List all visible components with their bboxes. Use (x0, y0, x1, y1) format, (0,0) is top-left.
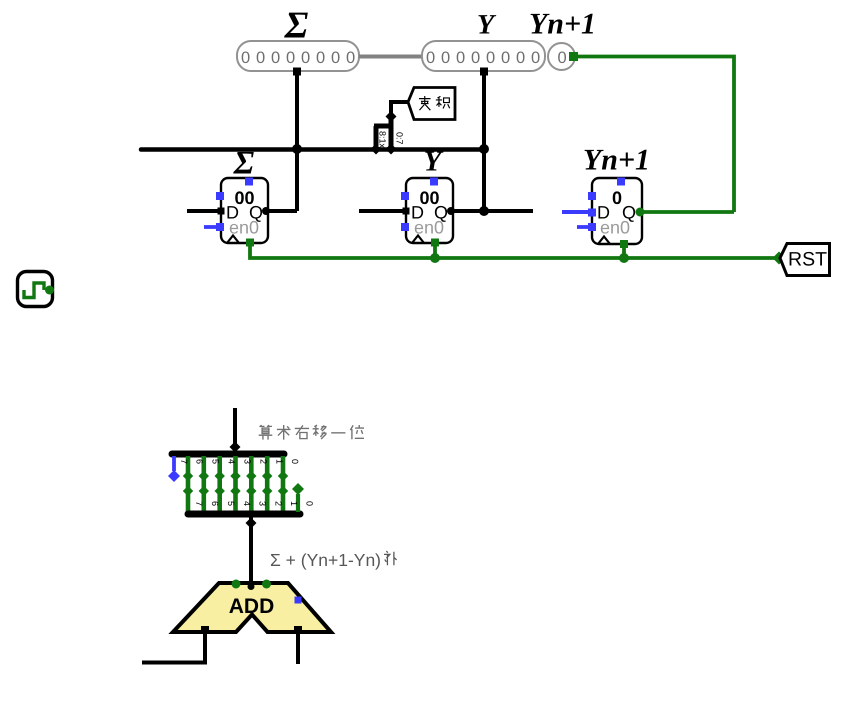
wire tunnel to splitter (391, 102, 408, 118)
pin adder input B green (262, 580, 271, 589)
pin adder bottom right (294, 626, 302, 634)
svg-text:4: 4 (242, 501, 252, 506)
wire green Yn+1 feedback top (577, 57, 734, 213)
pin adder input A green (232, 580, 241, 589)
splitter S1 body (371, 117, 397, 155)
splitter S2 top bar (172, 451, 284, 458)
svg-text:Σ: Σ (233, 146, 255, 182)
wire gray bus between probes (359, 55, 422, 59)
wire green from Yn+1 reset (622, 246, 626, 258)
wire green Q Yn+1 (640, 210, 734, 214)
splitter S3 lsb stub green (296, 494, 300, 512)
svg-text:0:7: 0:7 (395, 132, 405, 145)
register Y (401, 178, 455, 244)
svg-text:6: 6 (195, 459, 205, 464)
svg-text:00000000: 00000000 (426, 49, 540, 67)
text label BU glyph (384, 551, 397, 565)
svg-text:6: 6 (210, 501, 220, 506)
splitter S2 bit labels top (179, 459, 300, 464)
wire D input stub Yn+1 blue (562, 210, 592, 214)
node diamond shifter top (230, 442, 241, 453)
clock CLK body (18, 272, 53, 307)
wire Q SIGMA to vertical (266, 209, 297, 213)
pin probe SIGMA input (293, 68, 301, 76)
svg-text:1: 1 (289, 501, 299, 506)
shifter leg diamonds row2 (183, 486, 288, 496)
pin adder bottom left (201, 626, 209, 634)
node diamond RST wire end (773, 252, 786, 265)
svg-text:8:1x: 8:1x (378, 131, 388, 149)
svg-text:1: 1 (275, 459, 285, 464)
pin register SIGMA reset (246, 239, 254, 247)
pin adder carry blue (295, 597, 302, 604)
junction node bus x297 (292, 144, 302, 154)
wire stub into shifter top (233, 408, 237, 450)
svg-text:Y: Y (424, 146, 444, 178)
wire green from Y reset (433, 246, 437, 258)
svg-text:Y: Y (477, 10, 497, 41)
svg-text:7: 7 (194, 501, 204, 506)
pin clock output (45, 286, 54, 295)
svg-text:3: 3 (243, 459, 253, 464)
tunnel CHENGJI text (419, 96, 450, 110)
splitter S2 sign stub blue (172, 456, 176, 471)
tunnel RST body (780, 244, 830, 276)
wire en stub SIGMA blue (204, 225, 217, 229)
node diamond splitter main end (386, 111, 397, 122)
junction node Q wire x484 (479, 206, 489, 216)
wire vertical probe SIGMA to bus to reg Q (295, 75, 299, 211)
tunnel CHENGJI body (408, 88, 455, 120)
node adder top wire end (248, 583, 255, 590)
adder ADD body (173, 583, 331, 632)
svg-text:0: 0 (305, 501, 315, 506)
svg-text:5: 5 (226, 501, 236, 506)
pin register Yn+1 reset (620, 240, 628, 248)
node diamond blue sign (168, 470, 180, 482)
svg-text:0: 0 (290, 459, 300, 464)
svg-text:Yn+1: Yn+1 (583, 144, 650, 177)
wire adder right operand (296, 632, 300, 664)
wire main bus horizontal (141, 147, 484, 152)
splitter S3 bottom bar (188, 511, 300, 518)
pin probe Y input (480, 68, 488, 76)
svg-text:0: 0 (558, 49, 567, 67)
junction green node Yn+1 (619, 253, 629, 263)
probe Y body (422, 41, 545, 71)
pin register Y reset (431, 239, 439, 247)
svg-text:2: 2 (274, 501, 284, 506)
svg-text:4: 4 (227, 459, 237, 464)
shifter green legs (188, 456, 283, 512)
wire D input stub SIGMA (187, 209, 221, 213)
svg-text:0: 0 (612, 188, 622, 208)
wire green from SIGMA reset (250, 246, 779, 258)
svg-text:en0: en0 (600, 218, 630, 238)
clock waveform (24, 283, 44, 298)
wire D input stub Y (359, 209, 406, 213)
svg-text:00000000: 00000000 (241, 49, 355, 67)
pin probe Yn+1 output (569, 52, 578, 61)
shifter leg diamonds row1 (183, 471, 288, 481)
register SIGMA (216, 178, 270, 244)
svg-text:Yn+1: Yn+1 (529, 8, 596, 41)
junction green node Y (430, 253, 440, 263)
svg-text:RST: RST (788, 249, 827, 271)
node diamond shifter bottom (246, 518, 257, 529)
wire vertical probe Y to bus (482, 75, 486, 211)
wire Q Y output (451, 209, 533, 213)
text label arithmetic shift right (259, 425, 364, 440)
pin Q Yn+1 green (636, 208, 645, 217)
svg-text:7: 7 (179, 459, 189, 464)
svg-text:ADD: ADD (229, 595, 275, 618)
probe Yn+1 body (548, 43, 575, 70)
wire en stub Yn+1 blue (577, 225, 589, 229)
probe SIGMA body (237, 41, 359, 71)
svg-text:2: 2 (259, 459, 269, 464)
splitter S3 bit labels bottom (194, 501, 315, 506)
svg-text:3: 3 (258, 501, 268, 506)
wire shifter output to adder (249, 517, 253, 585)
register Yn+1 (588, 178, 642, 245)
junction node bus x484 (479, 144, 489, 154)
wire adder left operand (142, 632, 205, 663)
node diamond green lsb (292, 483, 304, 495)
svg-text:Σ: Σ (284, 5, 309, 47)
svg-text:Σ + (Yn+1-Yn): Σ + (Yn+1-Yn) (270, 550, 381, 570)
svg-text:5: 5 (211, 459, 221, 464)
